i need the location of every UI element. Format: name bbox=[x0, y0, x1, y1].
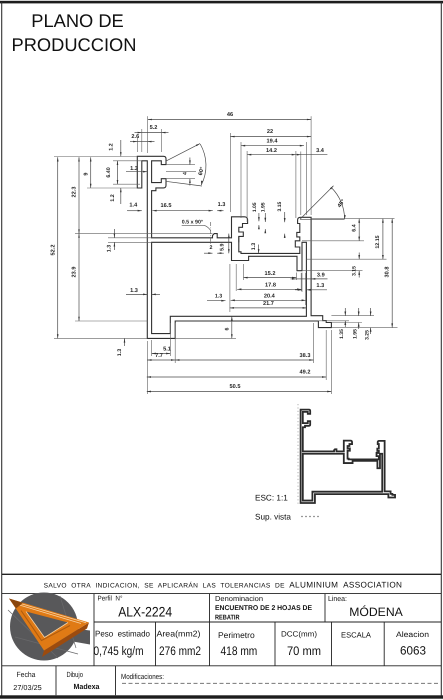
svg-text:1.3: 1.3 bbox=[316, 283, 324, 289]
svg-text:Peso estimado: Peso estimado bbox=[95, 629, 150, 639]
svg-text:ESC: 1:1: ESC: 1:1 bbox=[255, 494, 288, 503]
svg-text:Dibujo: Dibujo bbox=[66, 670, 83, 679]
svg-text:1.3: 1.3 bbox=[218, 202, 226, 208]
svg-text:3.15: 3.15 bbox=[277, 202, 283, 212]
svg-text:6.40: 6.40 bbox=[106, 167, 112, 177]
svg-text:Sup. vista: Sup. vista bbox=[255, 513, 291, 522]
svg-text:16.5: 16.5 bbox=[161, 203, 172, 209]
svg-text:1.3: 1.3 bbox=[117, 349, 123, 356]
svg-text:Linea:: Linea: bbox=[328, 594, 347, 603]
svg-text:23.9: 23.9 bbox=[72, 267, 78, 278]
svg-text:12.15: 12.15 bbox=[375, 235, 381, 248]
svg-text:Denominacion: Denominacion bbox=[215, 594, 263, 603]
svg-text:5.2: 5.2 bbox=[150, 125, 158, 131]
svg-text:49.2: 49.2 bbox=[300, 370, 311, 376]
svg-text:14.2: 14.2 bbox=[266, 148, 277, 154]
svg-text:1.05: 1.05 bbox=[252, 202, 258, 212]
svg-text:1.3: 1.3 bbox=[215, 293, 222, 299]
svg-text:70 mm: 70 mm bbox=[287, 644, 321, 658]
svg-text:1.95: 1.95 bbox=[352, 329, 358, 339]
svg-text:6: 6 bbox=[224, 327, 230, 330]
svg-text:Modificaciones:: Modificaciones: bbox=[121, 672, 164, 681]
svg-text:3.15: 3.15 bbox=[351, 266, 357, 276]
svg-text:2.6: 2.6 bbox=[131, 134, 139, 140]
svg-text:21.7: 21.7 bbox=[263, 301, 274, 307]
svg-text:50.5: 50.5 bbox=[230, 384, 241, 390]
svg-text:Aleacion: Aleacion bbox=[396, 630, 429, 639]
svg-text:30.8: 30.8 bbox=[384, 267, 390, 278]
svg-text:1.95: 1.95 bbox=[261, 202, 267, 212]
svg-text:PLANO DE: PLANO DE bbox=[31, 10, 123, 31]
svg-text:1.4: 1.4 bbox=[129, 202, 138, 208]
svg-text:20.4: 20.4 bbox=[264, 293, 276, 299]
svg-text:Madexa: Madexa bbox=[74, 682, 101, 691]
svg-text:7.7: 7.7 bbox=[155, 353, 163, 359]
svg-text:1.3: 1.3 bbox=[251, 243, 257, 250]
svg-text:1.2: 1.2 bbox=[108, 143, 114, 150]
svg-text:REBATIR: REBATIR bbox=[215, 614, 240, 621]
svg-text:Fecha: Fecha bbox=[17, 670, 37, 679]
svg-text:3.9: 3.9 bbox=[317, 272, 325, 278]
svg-text:3.25: 3.25 bbox=[364, 330, 370, 340]
svg-text:DCC(mm): DCC(mm) bbox=[281, 630, 317, 639]
svg-text:1.3: 1.3 bbox=[107, 245, 113, 252]
svg-text:MÓDENA: MÓDENA bbox=[349, 605, 403, 619]
svg-text:5.9: 5.9 bbox=[219, 243, 225, 250]
svg-text:9: 9 bbox=[83, 172, 89, 175]
svg-text:ALX-2224: ALX-2224 bbox=[118, 605, 172, 620]
svg-text:22: 22 bbox=[267, 129, 273, 135]
svg-text:19.4: 19.4 bbox=[267, 139, 279, 145]
svg-text:52.2: 52.2 bbox=[50, 245, 56, 256]
svg-text:1.3: 1.3 bbox=[130, 288, 138, 294]
svg-text:ENCUENTRO DE 2 HOJAS DE: ENCUENTRO DE 2 HOJAS DE bbox=[215, 605, 312, 612]
svg-text:27/03/25: 27/03/25 bbox=[13, 683, 42, 692]
svg-text:Perimetro: Perimetro bbox=[218, 630, 255, 640]
svg-text:3.4: 3.4 bbox=[316, 148, 325, 154]
svg-text:38.3: 38.3 bbox=[300, 353, 311, 359]
svg-text:0.5 x 90°: 0.5 x 90° bbox=[182, 219, 203, 225]
svg-text:1.35: 1.35 bbox=[339, 329, 345, 339]
svg-text:1.3: 1.3 bbox=[130, 166, 138, 172]
svg-text:Perfil N°: Perfil N° bbox=[98, 595, 123, 603]
svg-text:15.2: 15.2 bbox=[265, 271, 276, 277]
svg-text:1.2: 1.2 bbox=[110, 194, 116, 201]
svg-text:SALVO OTRA INDICACION, SE: SALVO OTRA INDICACION, SE APLICARÁN LAS … bbox=[44, 581, 403, 590]
svg-text:46: 46 bbox=[227, 112, 233, 118]
svg-text:6063: 6063 bbox=[400, 643, 426, 657]
svg-text:418 mm: 418 mm bbox=[221, 644, 258, 658]
svg-text:PRODUCCION: PRODUCCION bbox=[12, 34, 137, 55]
svg-text:0,745 kg/m: 0,745 kg/m bbox=[94, 644, 144, 658]
svg-text:22.3: 22.3 bbox=[72, 187, 78, 198]
svg-text:4: 4 bbox=[183, 172, 189, 175]
svg-text:6.4: 6.4 bbox=[351, 224, 357, 231]
svg-text:5.1: 5.1 bbox=[163, 346, 171, 352]
svg-text:Area(mm2): Area(mm2) bbox=[157, 628, 201, 638]
svg-text:17.8: 17.8 bbox=[265, 283, 276, 289]
svg-text:ESCALA: ESCALA bbox=[341, 631, 372, 640]
svg-text:2: 2 bbox=[210, 245, 213, 251]
svg-text:276 mm2: 276 mm2 bbox=[159, 644, 201, 658]
